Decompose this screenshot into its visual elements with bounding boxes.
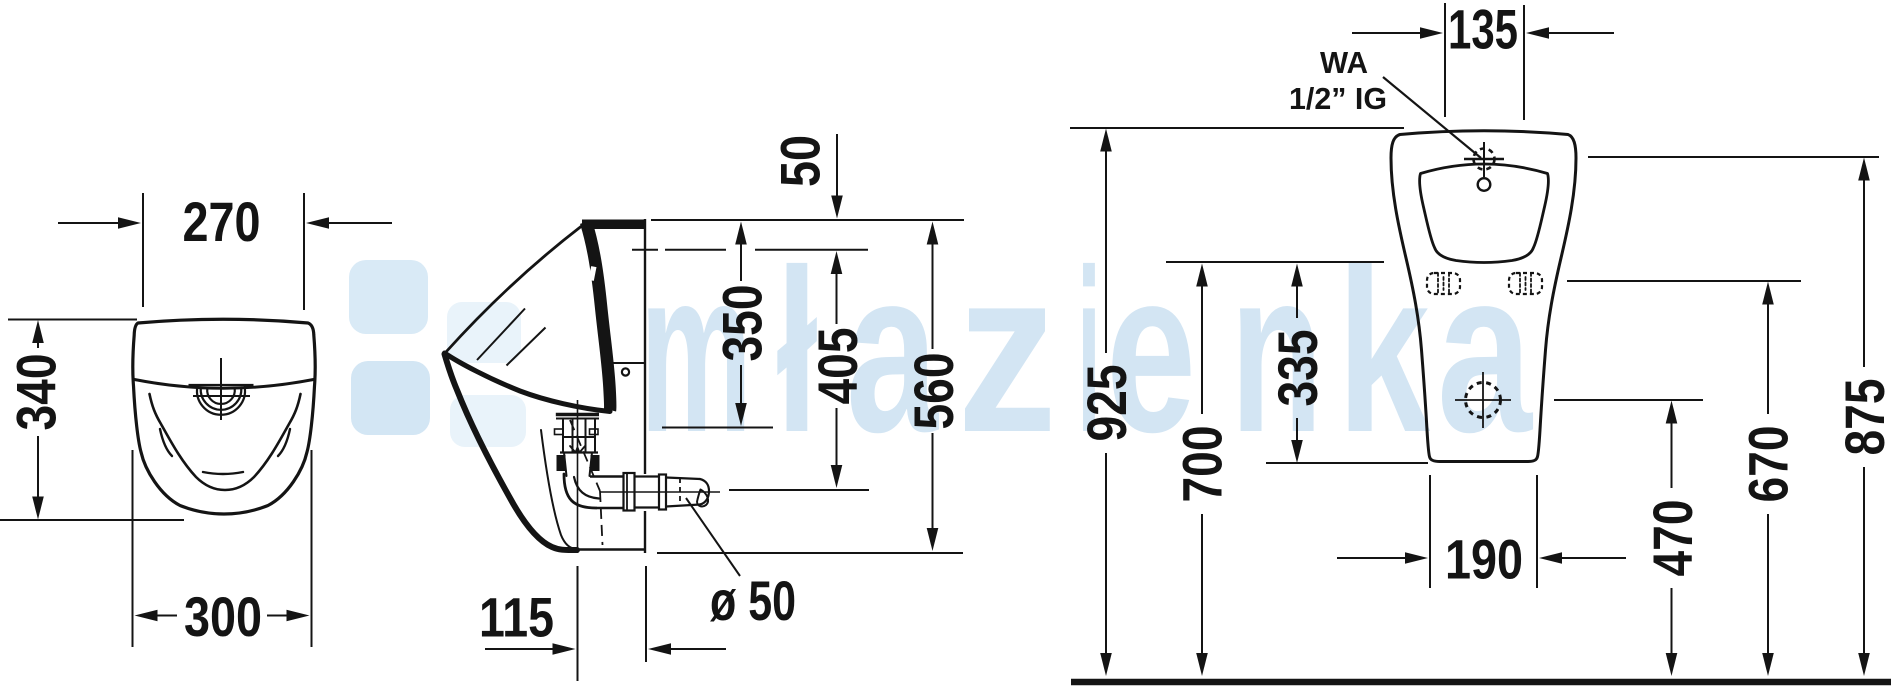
pipe centerline <box>600 491 720 493</box>
drain side wings <box>555 429 564 435</box>
ext line drain height (470) <box>1554 399 1703 401</box>
svg-text:135: 135 <box>1448 0 1518 60</box>
dim 875 line arrows <box>1858 158 1870 181</box>
dim 335 line arrows <box>1291 264 1303 287</box>
ext line mounting height right (670) <box>1567 280 1801 282</box>
front inlet dashed circle <box>1474 149 1495 170</box>
drip at spigot <box>697 490 708 507</box>
dim 340 line and arrows <box>37 330 39 348</box>
dim 190 extension lines <box>1429 475 1431 588</box>
watermark logo squares <box>349 260 526 447</box>
left view urinal outline (top view) <box>133 319 316 514</box>
dim 560 text <box>902 353 965 430</box>
side view wall line <box>644 219 646 474</box>
dim 115 extension lines <box>577 566 579 681</box>
svg-text:ø 50: ø 50 <box>710 569 796 632</box>
ref line top of urinal <box>651 219 964 221</box>
dim 300 extension lines <box>132 450 134 647</box>
mounting hole target right (dashed) <box>1509 273 1542 294</box>
dim 560 line arrows <box>927 222 939 245</box>
dim 560 bottom ext line <box>657 552 963 554</box>
side view hidden edge near wall <box>613 362 644 364</box>
left view inlet crosshair <box>220 358 222 420</box>
drain centerline vertical <box>577 400 579 553</box>
left view bowl rim line <box>135 380 314 389</box>
svg-text:115: 115 <box>479 585 554 648</box>
side view back bowl curve (thick) <box>586 222 610 410</box>
pipe ring 2 <box>659 475 666 510</box>
dim 405 text <box>806 328 869 405</box>
ext line bottom of urinal (335) <box>1266 462 1428 464</box>
side view inner shell line <box>541 430 576 549</box>
floor line <box>1071 679 1891 686</box>
dim 340 extension lines <box>8 319 137 321</box>
dim 300 arrows <box>135 610 158 622</box>
dim 340 text <box>4 354 67 431</box>
svg-text:700: 700 <box>1170 426 1233 503</box>
front inlet crosshair <box>1464 158 1504 160</box>
svg-text:925: 925 <box>1075 365 1138 442</box>
side view bottom edge <box>575 548 644 551</box>
dim 875 text <box>1833 379 1896 456</box>
side view front top edge <box>446 227 582 353</box>
dim 270 extension lines <box>142 193 144 307</box>
spigot tip <box>700 479 709 505</box>
outlet elbow <box>564 474 596 508</box>
drain flange <box>556 413 599 416</box>
white notch on back curve <box>589 266 597 281</box>
front inlet small circle <box>1478 178 1491 191</box>
outlet pipe <box>590 475 624 477</box>
ext line mounting height (700) <box>1166 261 1384 263</box>
leader line for o50 <box>686 498 740 576</box>
dim 350 line arrows <box>735 222 747 245</box>
dim 190 arrows <box>1337 557 1406 559</box>
svg-text:875: 875 <box>1833 379 1896 456</box>
dim 135 extension lines <box>1444 3 1446 117</box>
side view top rim (thick) <box>582 219 644 229</box>
ext line top of urinal (925) <box>1070 127 1404 129</box>
svg-text:300: 300 <box>184 585 262 648</box>
mounting hole target left (dashed) <box>1427 273 1460 294</box>
svg-text:50: 50 <box>768 135 831 187</box>
dim 470 line arrows <box>1666 401 1678 424</box>
spigot hidden edge <box>679 478 681 506</box>
left view bowl contour arcs <box>160 429 172 456</box>
dim 350 text <box>710 285 773 362</box>
front view inner basin <box>1420 164 1549 263</box>
dim 50 text <box>768 135 831 187</box>
pipe mid section <box>635 475 660 477</box>
strainer V notch <box>570 446 585 453</box>
svg-text:560: 560 <box>902 353 965 430</box>
dim 405 line arrows <box>831 251 843 274</box>
svg-text:405: 405 <box>806 328 869 405</box>
pipe end spigot <box>666 478 700 480</box>
dim 700 text <box>1170 426 1233 503</box>
dim 335 text <box>1266 330 1329 407</box>
left view flush inlet arcs <box>189 384 254 386</box>
dim 700 line arrows <box>1196 264 1208 287</box>
dim 50 arrow <box>836 134 838 196</box>
ext line inlet height (875) <box>1588 156 1879 158</box>
dim 350 bottom ext line <box>662 427 773 429</box>
svg-text:z: z <box>957 222 1057 481</box>
svg-text:350: 350 <box>710 285 773 362</box>
ref line 50 below top <box>632 249 658 251</box>
dim 670 text <box>1736 426 1799 503</box>
front view urinal outline <box>1391 131 1576 462</box>
dim 115 arrows <box>485 648 553 650</box>
svg-text:k: k <box>1337 222 1431 481</box>
svg-text:340: 340 <box>4 354 67 431</box>
dim 670 line arrows <box>1762 282 1774 305</box>
drain side tabs <box>557 455 566 471</box>
svg-text:WA: WA <box>1320 45 1368 80</box>
dim 270 arrow left <box>58 222 121 224</box>
side view bowl bottom (thick) <box>445 353 611 412</box>
svg-text:270: 270 <box>183 190 261 253</box>
front drain crosshair <box>1455 399 1511 401</box>
dim 405 bottom ext line <box>729 489 869 491</box>
svg-text:335: 335 <box>1266 330 1329 407</box>
dim 135 arrows <box>1352 32 1423 34</box>
dim 270 arrow right <box>326 222 392 224</box>
side view basin contour lines <box>477 309 525 361</box>
pipe ring 1 <box>624 473 635 511</box>
front drain dashed circle <box>1466 383 1501 418</box>
side view mounting hole <box>622 368 629 375</box>
dim 925 text <box>1075 365 1138 442</box>
dim 925 line arrows <box>1100 129 1112 152</box>
svg-text:670: 670 <box>1736 426 1799 503</box>
side view bowl underside curve (thick) <box>445 354 578 550</box>
trap centerline dashed <box>570 420 600 491</box>
svg-text:1/2” IG: 1/2” IG <box>1289 81 1387 116</box>
trap cup <box>564 453 592 477</box>
dim 470 text <box>1641 500 1704 577</box>
left view inner bowl <box>150 394 301 490</box>
leader line WA <box>1383 77 1481 158</box>
drain strainer body <box>563 419 595 453</box>
svg-text:470: 470 <box>1641 500 1704 577</box>
svg-text:190: 190 <box>1445 527 1523 590</box>
